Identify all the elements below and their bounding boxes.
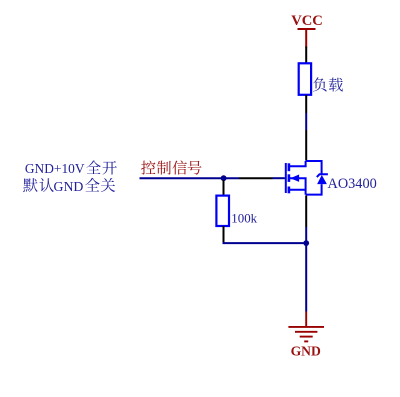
wire VCC to load resistor (305, 47, 307, 64)
transistor Q1 AO3400 N-MOSFET (286, 161, 322, 195)
power symbol VCC (291, 13, 323, 48)
wire source to node B (black then navy) (305, 196, 307, 244)
svg-text:AO3400: AO3400 (328, 176, 377, 192)
svg-text:GND+10V: GND+10V (25, 161, 85, 176)
svg-text:VCC: VCC (291, 13, 323, 29)
wire node A to R1 (223, 180, 225, 195)
svg-text:100k: 100k (231, 212, 257, 226)
wire R1 bottom (223, 226, 225, 243)
wire bottom horizontal to source node (223, 242, 307, 244)
svg-text:GND: GND (291, 344, 321, 359)
svg-text:GND: GND (54, 179, 84, 194)
body diode of Q1 (317, 160, 328, 196)
ground GND power symbol (288, 312, 324, 342)
annotation line 2: MoRen (default) GND QuanGuan (all off) (23, 178, 115, 194)
resistor R_load (FuZai = load) (299, 63, 311, 95)
wire load to drain (black/navy/black segments) (305, 95, 307, 161)
resistor R1 100k (216, 196, 229, 226)
junction node A (gate / R1 top) (221, 175, 227, 181)
wire gate (control signal net) (140, 177, 285, 179)
net label KongZhiXinHao (control signal) (141, 160, 201, 174)
wire node B to ground (305, 245, 307, 312)
annotation line 1: GND+10V QuanKai (all on) (25, 160, 117, 176)
label FuZai (load) (313, 77, 343, 91)
junction node B (source / R1 bottom / GND) (303, 240, 309, 246)
